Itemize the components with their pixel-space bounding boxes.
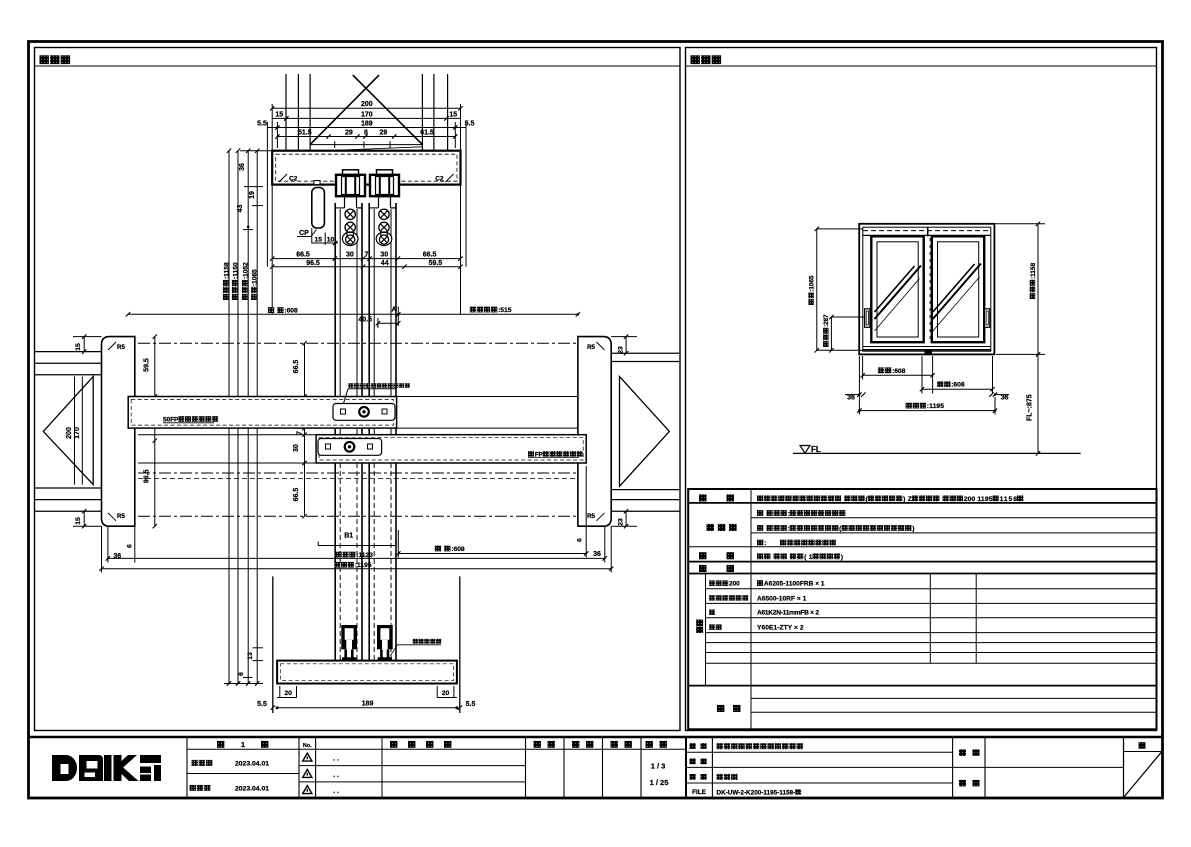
small tab on head frame <box>314 181 320 185</box>
door R screws <box>379 209 389 219</box>
svg-text:) Z: ) Z <box>903 496 912 503</box>
guide block L <box>341 625 357 649</box>
FL line <box>793 452 1081 454</box>
dim 枠外幅:1195 <box>859 410 995 412</box>
svg-text:No.: No. <box>303 743 312 749</box>
table row label 型式 <box>699 494 707 501</box>
value 図名 三面図 <box>717 774 738 780</box>
header 第1版 <box>217 741 224 748</box>
svg-text:40.5: 40.5 <box>358 317 372 324</box>
svg-text::1158: :1158 <box>223 262 230 279</box>
opening edge verticals below head frame <box>271 185 273 315</box>
svg-text:FL: FL <box>811 445 821 454</box>
header 縮尺 <box>646 741 653 748</box>
svg-text:A61K2N-11mmFB × 2: A61K2N-11mmFB × 2 <box>757 610 819 617</box>
svg-text:15: 15 <box>75 517 82 525</box>
svg-text::1195: :1195 <box>355 562 372 569</box>
svg-text:7: 7 <box>364 251 368 258</box>
header 作成 <box>611 741 618 748</box>
left small dims 36/19/43 <box>247 151 249 230</box>
value 名称 おもいやりキッズシリーズ <box>717 743 804 749</box>
svg-text:44: 44 <box>381 260 389 267</box>
svg-text:36: 36 <box>1001 394 1009 401</box>
glass reflection lines left <box>875 266 922 320</box>
svg-text:R5: R5 <box>587 513 595 520</box>
svg-text:50FP: 50FP <box>163 416 179 423</box>
svg-text:5.5: 5.5 <box>257 121 267 128</box>
dimension line 170 with 15 ends <box>272 117 460 119</box>
svg-text::608: :608 <box>451 546 465 553</box>
svg-text:1 / 3: 1 / 3 <box>651 762 666 771</box>
svg-text:30: 30 <box>346 251 354 258</box>
upper bar end plate with holes <box>333 404 395 421</box>
DAIKEN logo <box>52 755 161 781</box>
left jamb R5 marks <box>108 342 116 350</box>
table horizontal lines <box>688 502 1156 504</box>
row content 型式 <box>757 495 1023 502</box>
cross brace X diagonal 1 <box>310 75 379 145</box>
svg-text:61.5: 61.5 <box>420 130 434 137</box>
svg-text:C2: C2 <box>435 176 444 183</box>
label 引FP周りキャップ <box>528 451 583 458</box>
svg-text:10: 10 <box>327 237 335 244</box>
hanger roller L <box>343 170 359 175</box>
品番 sub rows <box>709 580 740 587</box>
label ガイドピン <box>413 639 442 644</box>
svg-text:1 / 25: 1 / 25 <box>650 778 669 787</box>
svg-text:59.5: 59.5 <box>429 260 443 267</box>
svg-text:FILE: FILE <box>692 789 707 796</box>
dim 15 10 under CP <box>311 228 313 244</box>
svg-text:A6500-10RF × 1: A6500-10RF × 1 <box>757 595 807 602</box>
svg-text:170: 170 <box>361 111 373 118</box>
svg-text::1065: :1065 <box>809 275 816 292</box>
svg-text:200: 200 <box>729 581 740 588</box>
svg-text:36: 36 <box>239 163 246 171</box>
roller hanger neck R <box>378 196 380 208</box>
sill wall verticals <box>272 576 274 713</box>
lower rail track lines to left jamb <box>138 434 316 436</box>
svg-text:96.5: 96.5 <box>143 469 150 483</box>
left jamb profile <box>102 337 135 527</box>
label 有効高:1052 <box>242 262 249 300</box>
svg-text:189: 189 <box>361 120 373 127</box>
svg-text:A: A <box>391 307 396 314</box>
svg-text:5.5: 5.5 <box>466 701 476 708</box>
cross brace X diagonal 2 <box>353 75 423 145</box>
svg-text::1052: :1052 <box>242 262 249 279</box>
right jamb R5 marks <box>597 342 605 350</box>
label 扉高:1065 <box>251 269 258 300</box>
dimension line 200 <box>272 107 460 109</box>
right sash <box>932 236 984 342</box>
svg-text:1: 1 <box>241 740 245 749</box>
svg-text::1123: :1123 <box>356 552 373 559</box>
lower bar end plate with holes <box>318 439 382 456</box>
FL marker <box>800 446 810 454</box>
thin shim line above head frame <box>310 147 422 152</box>
right break triangle <box>620 377 670 487</box>
left panel title strip line <box>35 65 681 67</box>
bottom dim 1189 with 5.5 <box>277 707 457 709</box>
title block horizontals <box>187 748 686 750</box>
svg-text::: : <box>764 540 766 547</box>
dimension line 1189 with 5.5 ends <box>267 127 466 129</box>
svg-text:23: 23 <box>618 518 625 526</box>
top rail lines <box>863 230 991 232</box>
left panel border (cross-section view) <box>35 48 681 731</box>
dim 枠外高:1158 <box>1037 224 1039 355</box>
svg-text:CP: CP <box>299 230 309 237</box>
dim 40.5 <box>378 322 398 324</box>
改訂日 row <box>190 785 211 791</box>
svg-text:Y60E1-ZTY × 2: Y60E1-ZTY × 2 <box>757 625 804 632</box>
svg-text::: : <box>788 526 790 533</box>
glass reflection lines right <box>933 264 981 320</box>
label 有効開口:515 <box>470 307 512 314</box>
bottom rail lines <box>863 346 991 348</box>
title block top border <box>29 736 1163 739</box>
label 扉幅:608 top <box>268 307 298 314</box>
right panel title strip line <box>686 65 1157 67</box>
center stile dashes <box>927 227 929 236</box>
revision warning triangles <box>303 753 312 761</box>
svg-text:2023.04.01: 2023.04.01 <box>235 786 269 793</box>
svg-text:R5: R5 <box>117 344 125 351</box>
svg-text:200 1195: 200 1195 <box>964 496 993 503</box>
label 頁 <box>1139 742 1146 749</box>
door L bottom pivot fixture <box>342 232 358 246</box>
svg-text:DK-UW-2-K200-1195-1158-: DK-UW-2-K200-1195-1158- <box>717 789 796 796</box>
svg-text:200: 200 <box>361 101 373 108</box>
svg-text:R5: R5 <box>117 513 125 520</box>
dim row 96.5/44/59.5 <box>272 266 460 268</box>
dimension line 51.5/29/8/29/61.5 <box>277 136 455 138</box>
svg-text:51.5: 51.5 <box>298 130 312 137</box>
plan bottom extension verticals <box>101 526 103 572</box>
svg-text:C2: C2 <box>289 176 298 183</box>
svg-text:5.5: 5.5 <box>257 701 267 708</box>
label 拠点 <box>959 780 966 787</box>
svg-text:B1: B1 <box>344 533 353 540</box>
svg-text::1065: :1065 <box>252 269 259 286</box>
svg-text:30: 30 <box>293 444 300 452</box>
header 承認 <box>534 741 541 748</box>
right panel title 正面図 <box>691 55 722 64</box>
row content 金物 <box>757 553 843 560</box>
svg-text:66.5: 66.5 <box>423 251 437 258</box>
svg-text:6: 6 <box>127 544 134 548</box>
svg-text:59.5: 59.5 <box>143 358 150 372</box>
plan right vertical dim line 66.5/30/7/30/66.5 <box>304 343 306 516</box>
dim line 内法幅:1123 <box>108 557 605 559</box>
svg-text:15: 15 <box>449 111 457 118</box>
svg-text:A6205-1100FRB × 1: A6205-1100FRB × 1 <box>764 581 825 588</box>
svg-text:15: 15 <box>315 237 323 244</box>
table row label 仕上げ <box>707 524 737 531</box>
label 50FP周りキャップ <box>163 416 218 423</box>
wall stud lines above head frame <box>285 74 287 151</box>
roller hanger neck L <box>344 196 346 208</box>
svg-text:. .: . . <box>333 788 339 795</box>
svg-text:15: 15 <box>275 111 283 118</box>
svg-text:6: 6 <box>577 538 584 542</box>
svg-text::1150: :1150 <box>232 262 239 279</box>
left panel title 断面図 <box>40 55 71 64</box>
svg-text:13: 13 <box>247 652 254 660</box>
row contents 仕上げ <box>757 510 845 517</box>
right panel border (front elevation view) <box>686 48 1157 731</box>
svg-text:FL~:875: FL~:875 <box>1027 394 1034 421</box>
meeting stile bottom block <box>925 350 932 355</box>
svg-text:): ) <box>841 554 843 561</box>
svg-text::: : <box>788 511 790 518</box>
dim line 枠外幅:1195 <box>102 568 612 570</box>
header 検図 <box>572 741 579 748</box>
right jamb profile <box>578 337 611 527</box>
right wall lines (plan) <box>611 352 680 354</box>
value FILE <box>717 789 802 796</box>
extension verticals head dims <box>271 104 273 151</box>
svg-text:29: 29 <box>345 130 353 137</box>
chamfer mark C2 right <box>446 174 454 182</box>
head frame profile <box>240 150 272 152</box>
svg-text::1158: :1158 <box>1030 262 1037 279</box>
door panel L vertical lines <box>334 203 336 661</box>
20 dims <box>277 697 296 699</box>
upper sliding door bar (plan) <box>128 397 396 429</box>
svg-text:2023.04.01: 2023.04.01 <box>235 761 269 768</box>
svg-text:R5: R5 <box>587 344 595 351</box>
left sash <box>871 236 923 342</box>
svg-text:29: 29 <box>380 130 388 137</box>
sill height small dims 13/6 <box>253 647 264 649</box>
svg-text:1158: 1158 <box>1000 496 1018 503</box>
door panel R vertical lines <box>368 203 370 661</box>
svg-text::608: :608 <box>284 308 298 315</box>
table row label 金物 <box>699 552 707 559</box>
left 15 dims rotated <box>83 337 85 352</box>
door L screws <box>345 209 355 219</box>
hanger roller R <box>377 170 393 175</box>
svg-text:170: 170 <box>74 427 81 439</box>
chamfer mark C2 left <box>279 174 287 182</box>
svg-text:): ) <box>912 526 914 533</box>
label 枠外高:1158 <box>223 262 230 300</box>
svg-text:189: 189 <box>362 701 374 708</box>
table row label 色柄 <box>699 565 707 572</box>
header 改訂履歴 <box>390 741 397 748</box>
svg-text::608: :608 <box>892 368 906 375</box>
36 side margin dims <box>845 394 859 396</box>
note 閉出防止金物 <box>349 383 410 388</box>
door R bottom pivot fixture <box>376 232 392 246</box>
svg-text:20: 20 <box>284 690 292 697</box>
CP stopper capsule <box>312 188 325 229</box>
svg-text:8: 8 <box>364 130 368 137</box>
svg-text:36: 36 <box>593 551 601 558</box>
svg-text::515: :515 <box>498 307 512 314</box>
svg-text:36: 36 <box>847 394 855 401</box>
svg-text:200: 200 <box>66 427 73 439</box>
dim 引手高:287 <box>830 317 832 350</box>
svg-text:(1: (1 <box>804 554 813 561</box>
title block verticals <box>186 737 188 798</box>
handle right <box>985 309 990 328</box>
label 品番 <box>690 759 696 765</box>
dim row 66.5/30/7/30/66.5 <box>272 258 460 260</box>
dashed line below lower door <box>138 478 578 480</box>
dim 扉幅:608 right sash <box>921 356 923 394</box>
svg-text:96.5: 96.5 <box>306 260 320 267</box>
window outer frame <box>859 224 994 355</box>
page diagonal <box>1124 752 1162 798</box>
upper rail track lines to right jamb <box>397 396 578 398</box>
lower tick line of head dims <box>310 144 422 146</box>
svg-text:19: 19 <box>249 191 256 199</box>
table row label 品番 <box>696 620 703 627</box>
svg-text:66.5: 66.5 <box>293 360 300 374</box>
rail centerlines dash-dot <box>138 342 578 344</box>
guide block R <box>377 625 393 649</box>
svg-text:66.5: 66.5 <box>293 488 300 502</box>
svg-text:20: 20 <box>442 690 450 697</box>
lower sliding door bar (plan) <box>316 435 586 463</box>
svg-text:66.5: 66.5 <box>296 251 310 258</box>
label 名称 <box>690 743 696 749</box>
dim 扉幅:608 left sash <box>862 356 864 380</box>
svg-text:. .: . . <box>333 772 339 779</box>
right 23 dims rotated <box>625 337 627 354</box>
label 図名 <box>690 774 696 780</box>
dim FL~:875 <box>1037 354 1039 453</box>
spec table outer <box>688 489 1156 729</box>
svg-text:. .: . . <box>333 756 339 763</box>
left break triangle <box>43 377 93 485</box>
table vertical lines <box>750 489 752 729</box>
svg-text:30: 30 <box>380 251 388 258</box>
svg-text::608: :608 <box>951 382 965 389</box>
bottom dim 扉幅:608 (plan) <box>435 546 465 553</box>
wall dim labels 200/170 rotated <box>74 377 76 485</box>
label 件名 <box>959 749 966 756</box>
svg-text:15: 15 <box>75 343 82 351</box>
制定日 row <box>191 760 212 766</box>
label 内法高:1150 <box>232 262 239 300</box>
svg-text:6: 6 <box>238 672 245 676</box>
svg-text::1195: :1195 <box>927 403 944 410</box>
sill profile <box>277 661 457 684</box>
plan top dim line 608 / 515 <box>128 313 578 315</box>
dim 框高:1065 <box>816 229 818 350</box>
svg-text:23: 23 <box>618 346 625 354</box>
svg-text::287: :287 <box>823 314 830 327</box>
table row label 備考 <box>717 705 725 712</box>
handle left <box>865 309 870 328</box>
plan left jamb vertical dim line 59.5/44/96.5 <box>154 337 156 527</box>
long vertical dimension lines (heights) <box>228 151 230 684</box>
left wall lines (plan) <box>35 351 102 353</box>
